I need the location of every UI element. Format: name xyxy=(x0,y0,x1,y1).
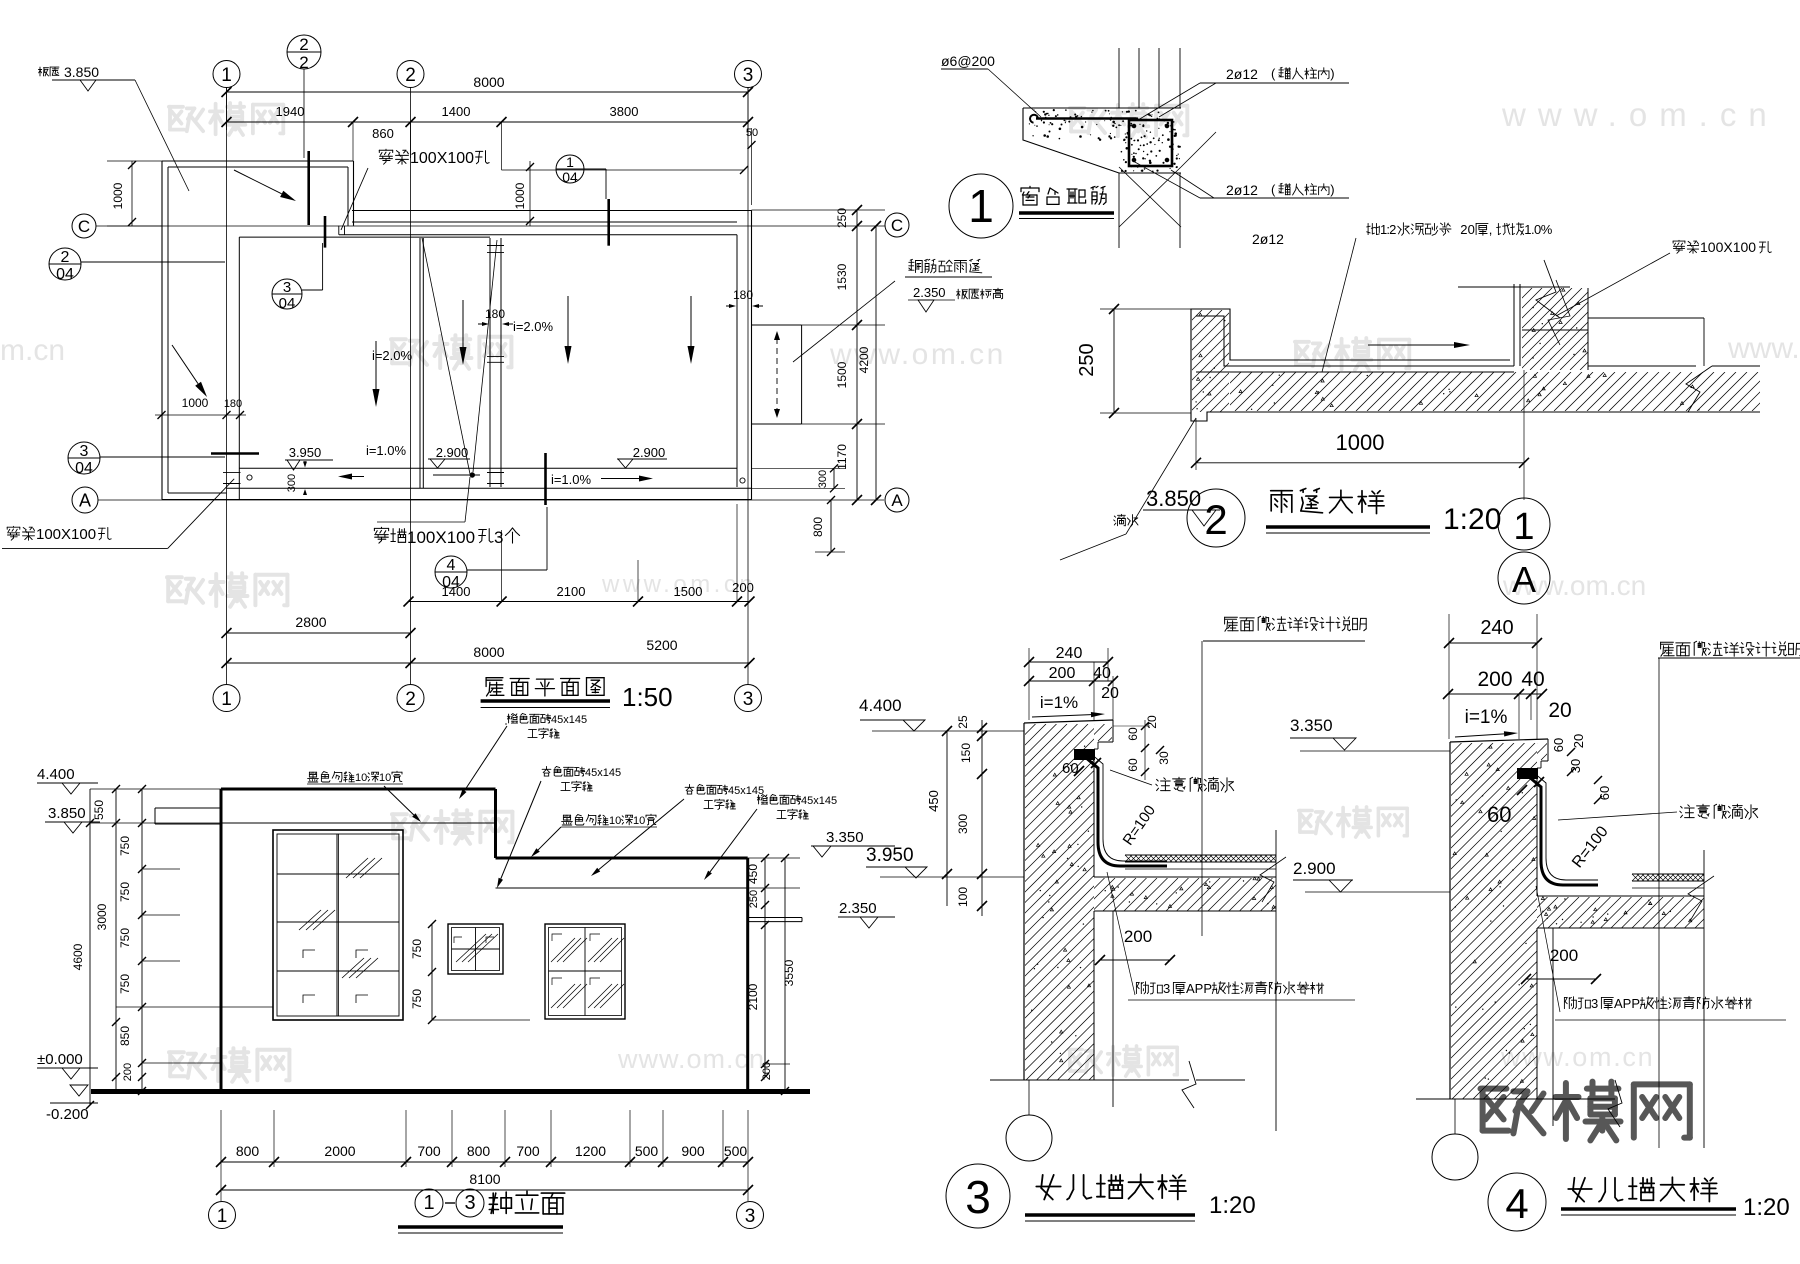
watermark outline text left mid xyxy=(167,577,203,603)
svg-text:2800: 2800 xyxy=(295,614,326,630)
watermark outline text top-left xyxy=(169,107,203,131)
axis line A xyxy=(98,499,884,501)
detail4 title xyxy=(1488,1173,1546,1231)
small window xyxy=(448,924,503,974)
svg-text:30: 30 xyxy=(1157,751,1171,765)
svg-text:3.350: 3.350 xyxy=(1290,716,1333,735)
big window xyxy=(273,830,403,1020)
svg-text:450: 450 xyxy=(746,864,760,884)
slope arrow left room 2 xyxy=(462,300,464,347)
detail3 left dim columns xyxy=(946,731,948,906)
empty bubble xyxy=(1432,1134,1478,1180)
right dim 300 xyxy=(833,468,835,488)
leader beam hole label xyxy=(1673,240,1685,253)
top dim row 1940/860/1400/3800 xyxy=(227,121,749,123)
svg-text:4600: 4600 xyxy=(71,943,85,970)
svg-text:1000: 1000 xyxy=(111,182,125,209)
bottom wall outer line xyxy=(162,499,752,501)
svg-text:750: 750 xyxy=(410,989,424,1009)
svg-text:m.cn: m.cn xyxy=(0,334,65,367)
svg-text:1530: 1530 xyxy=(835,263,849,290)
svg-text:3.950: 3.950 xyxy=(289,445,322,460)
watermark outline text bottom-left xyxy=(169,1052,205,1078)
svg-text:1: 1 xyxy=(1513,506,1534,548)
wall line below C right xyxy=(339,234,737,236)
watermark outline text detail3 xyxy=(1299,811,1331,834)
svg-text:250: 250 xyxy=(835,208,849,228)
main room top inner xyxy=(239,236,490,238)
callout apricot tile 1 xyxy=(542,767,551,777)
svg-text:ø6@200: ø6@200 xyxy=(941,53,995,69)
svg-text:550: 550 xyxy=(92,800,106,820)
axis bubble 1 bottom xyxy=(213,685,240,712)
svg-text:240: 240 xyxy=(1480,617,1513,639)
svg-text:C: C xyxy=(891,216,903,235)
elevation outline xyxy=(221,788,496,791)
svg-text:10: 10 xyxy=(355,772,367,784)
bottom dim row 2800 xyxy=(227,632,411,634)
svg-text:3.950: 3.950 xyxy=(866,845,914,866)
label chuanqiang 100X100 3 holes xyxy=(374,527,388,543)
svg-text:250: 250 xyxy=(1076,343,1098,376)
svg-text:100: 100 xyxy=(956,887,970,907)
svg-text:04: 04 xyxy=(279,295,296,312)
slope arrow porch top xyxy=(234,170,282,194)
ground line xyxy=(91,1089,810,1094)
canopy upturn outline xyxy=(1191,309,1510,414)
watermark outline text detail2 xyxy=(1295,342,1329,366)
top dim extensions 1000 right xyxy=(502,169,745,171)
detail4 roof note xyxy=(1661,642,1675,656)
svg-text:i=1.0%: i=1.0% xyxy=(366,443,407,458)
svg-text:i=2.0%: i=2.0% xyxy=(372,348,413,363)
svg-text:1: 1 xyxy=(221,689,232,710)
axis bubble 1 top xyxy=(213,61,240,88)
svg-text:800: 800 xyxy=(811,517,825,537)
svg-text:3: 3 xyxy=(80,443,89,460)
svg-text:): ) xyxy=(1330,182,1334,197)
svg-text:(: ( xyxy=(1271,182,1276,197)
svg-text:1940: 1940 xyxy=(276,104,305,119)
dim 750x2 at small window xyxy=(431,924,433,1020)
axis bubble 3 top xyxy=(735,61,762,88)
left canopy 3.850 xyxy=(155,807,221,809)
svg-text:300: 300 xyxy=(956,814,970,834)
main left wall inner xyxy=(238,237,240,499)
svg-text:www.om.cn: www.om.cn xyxy=(617,1044,765,1074)
svg-text:20: 20 xyxy=(1548,699,1571,722)
svg-text:4: 4 xyxy=(447,557,456,574)
svg-text:300: 300 xyxy=(286,474,298,492)
right dim column 250/1530/1500/1170 xyxy=(856,210,858,500)
svg-text:A: A xyxy=(79,490,91,510)
svg-text:3550: 3550 xyxy=(782,959,796,986)
beam hole at C axis xyxy=(338,226,340,235)
shaft wall with holes xyxy=(489,238,491,487)
membrane waterproofing curve xyxy=(1528,776,1598,885)
svg-text:200: 200 xyxy=(1124,927,1152,946)
label banDi 3.850 top-left xyxy=(39,67,49,76)
svg-text:www.o: www.o xyxy=(1727,332,1800,365)
svg-text:60: 60 xyxy=(1126,727,1140,741)
svg-text:10: 10 xyxy=(633,815,645,827)
stirrup square xyxy=(1129,120,1172,166)
parapet cap xyxy=(1450,739,1548,742)
detail bubble 3/04 in plan xyxy=(272,279,302,309)
svg-text:2: 2 xyxy=(61,249,70,266)
svg-text:1:20: 1:20 xyxy=(1743,1194,1790,1221)
wall hole 100x100 symbol at y 245.5 xyxy=(487,245,504,247)
svg-text:30: 30 xyxy=(1568,759,1583,773)
svg-text:200: 200 xyxy=(122,1063,134,1081)
elevation bottom axis bubbles xyxy=(209,1202,236,1229)
label chuanliang 100X100 hole bottom-left xyxy=(7,526,20,540)
label chuanliang 100X100 hole top xyxy=(379,149,392,164)
thick beam bar x545 xyxy=(544,453,547,505)
svg-text:200: 200 xyxy=(1477,668,1512,691)
slope arrow right room 1 xyxy=(567,296,569,346)
svg-text:3: 3 xyxy=(1163,981,1170,996)
svg-text:750: 750 xyxy=(410,939,424,959)
axis line 3 xyxy=(747,88,749,685)
thick beam bar on axis 2/2 xyxy=(307,151,310,225)
svg-text:1: 1 xyxy=(566,154,574,170)
bottom dim row 8000/5200 xyxy=(227,662,750,664)
svg-text:4.400: 4.400 xyxy=(37,766,75,783)
gutter arrow right xyxy=(601,478,639,480)
svg-text:8000: 8000 xyxy=(473,74,504,90)
wall below slab xyxy=(1536,928,1538,1099)
svg-text:2.900: 2.900 xyxy=(1293,859,1336,878)
svg-text:250: 250 xyxy=(748,890,760,908)
axis bubble 2/2 xyxy=(287,35,321,69)
drip note detail3 xyxy=(1156,778,1170,791)
drip note detail4 xyxy=(1680,805,1694,818)
svg-text:1: 1 xyxy=(423,1192,434,1214)
svg-text:8100: 8100 xyxy=(469,1171,500,1187)
svg-text:3.850: 3.850 xyxy=(64,64,99,80)
axis line C xyxy=(96,225,885,227)
main right wall faces xyxy=(736,235,738,487)
APP label detail3 xyxy=(1136,982,1148,994)
svg-text:100X100: 100X100 xyxy=(36,526,96,543)
svg-text:240: 240 xyxy=(1056,645,1083,662)
right dim column 4200 xyxy=(875,226,877,500)
svg-text:1500: 1500 xyxy=(835,361,849,388)
svg-text:150: 150 xyxy=(959,743,973,763)
svg-text:200: 200 xyxy=(1550,946,1578,965)
svg-text:3: 3 xyxy=(965,1171,991,1223)
break mark right xyxy=(1686,366,1712,412)
svg-text:180: 180 xyxy=(733,288,753,302)
svg-text:200: 200 xyxy=(732,580,754,595)
svg-text:2ø12: 2ø12 xyxy=(1226,66,1258,82)
svg-text:45x145: 45x145 xyxy=(551,714,587,726)
svg-text:2ø12: 2ø12 xyxy=(1252,231,1284,247)
ground break xyxy=(990,1079,1189,1081)
roof slab xyxy=(1537,895,1704,897)
svg-text:2.900: 2.900 xyxy=(633,445,666,460)
svg-text:1:20: 1:20 xyxy=(1209,1192,1256,1219)
callout orange tile 2 xyxy=(757,795,767,805)
insulation crosshatch xyxy=(1125,854,1276,856)
right dim extension lines xyxy=(752,209,886,211)
svg-text:-0.200: -0.200 xyxy=(46,1106,89,1123)
svg-text:60: 60 xyxy=(1062,760,1079,777)
svg-text:3: 3 xyxy=(743,689,754,710)
svg-text:2000: 2000 xyxy=(324,1143,355,1159)
svg-text:2ø12: 2ø12 xyxy=(1226,182,1258,198)
big dark watermark bottom right xyxy=(1481,1089,1544,1134)
axis bubble C right xyxy=(885,213,909,237)
bottom dim row 1400/2100/1500/200 xyxy=(409,601,750,603)
svg-text:45x145: 45x145 xyxy=(585,767,621,779)
svg-text:A: A xyxy=(891,491,903,510)
watermark outline text elevation xyxy=(392,814,428,840)
svg-text:100X100: 100X100 xyxy=(410,150,474,167)
porch outer walls xyxy=(162,160,354,162)
roof slab xyxy=(1094,876,1276,878)
svg-text:4: 4 xyxy=(1505,1180,1528,1227)
watermark outline text detail1 xyxy=(1070,108,1105,133)
gutter top line xyxy=(239,467,737,469)
detail3 right edge line xyxy=(1275,830,1277,1131)
division wall at axis2 xyxy=(419,238,421,488)
svg-text:1000: 1000 xyxy=(182,396,209,410)
svg-text:45x145: 45x145 xyxy=(801,795,837,807)
svg-text:180: 180 xyxy=(224,398,242,410)
svg-text:2: 2 xyxy=(299,35,308,54)
axis bubble A right xyxy=(885,488,909,512)
svg-text:4200: 4200 xyxy=(857,346,871,373)
svg-text:i=1%: i=1% xyxy=(1465,707,1508,728)
svg-text:700: 700 xyxy=(516,1143,540,1159)
svg-text:(: ( xyxy=(1271,66,1276,81)
ground break xyxy=(1416,1098,1615,1100)
svg-text:3: 3 xyxy=(464,1192,475,1214)
svg-text:750: 750 xyxy=(118,974,132,994)
svg-text:): ) xyxy=(1330,66,1334,81)
svg-text:100X100: 100X100 xyxy=(407,528,475,547)
parapet cap xyxy=(1024,720,1113,723)
svg-text:04: 04 xyxy=(75,460,93,477)
svg-text:1500: 1500 xyxy=(674,584,703,599)
svg-text:8000: 8000 xyxy=(473,644,504,660)
svg-text:60: 60 xyxy=(1487,802,1511,827)
section bubble 2/04 xyxy=(49,248,81,280)
leader mortar label xyxy=(1367,223,1380,234)
canopy box right xyxy=(752,324,802,326)
top wall right portion xyxy=(352,210,752,212)
axis bubble 2 bottom xyxy=(397,685,424,712)
svg-text:860: 860 xyxy=(372,126,394,141)
slope arrow left room 1 xyxy=(375,341,377,389)
svg-text:1200: 1200 xyxy=(575,1143,606,1159)
svg-text:40: 40 xyxy=(1521,668,1544,691)
break zigzag above wall xyxy=(1536,260,1560,318)
elevation left dims xyxy=(89,789,91,1105)
svg-text:1:2: 1:2 xyxy=(1380,222,1396,237)
svg-text:04: 04 xyxy=(562,169,578,185)
thick beam bar x325 xyxy=(324,216,327,248)
label gangjin canopy xyxy=(909,259,922,272)
axis line 2/2 xyxy=(303,69,305,158)
svg-text:5200: 5200 xyxy=(646,637,677,653)
callout black joint 1 xyxy=(308,772,319,782)
svg-text:20: 20 xyxy=(1145,715,1159,729)
canopy slab bottom with drip xyxy=(1191,412,1760,421)
svg-text:2.350: 2.350 xyxy=(913,285,946,300)
svg-text:800: 800 xyxy=(467,1143,491,1159)
gutter mid line with dot xyxy=(433,474,480,476)
axis bubble C left xyxy=(72,214,96,238)
slab outline xyxy=(1023,107,1181,109)
svg-text:10: 10 xyxy=(379,772,391,784)
main rebar with hook xyxy=(1036,117,1136,119)
svg-text:2.350: 2.350 xyxy=(839,900,877,917)
svg-text:1.0%: 1.0% xyxy=(1524,222,1552,237)
callout apricot tile 2 xyxy=(685,785,694,795)
svg-text:1000: 1000 xyxy=(513,182,527,209)
svg-text:700: 700 xyxy=(417,1143,441,1159)
porch inner walls xyxy=(168,166,348,168)
svg-text:750: 750 xyxy=(118,928,132,948)
drip label xyxy=(1114,514,1126,525)
svg-text:www.om.cn: www.om.cn xyxy=(829,338,1006,371)
svg-text:25: 25 xyxy=(956,715,970,729)
callout orange tile 1 xyxy=(507,714,517,724)
svg-text:A: A xyxy=(1512,559,1536,600)
column lines below xyxy=(1118,173,1120,248)
svg-text:450: 450 xyxy=(926,790,941,812)
svg-text:200: 200 xyxy=(761,1062,773,1080)
svg-text:3: 3 xyxy=(1591,996,1598,1011)
svg-text:www.om.cn: www.om.cn xyxy=(1500,1042,1654,1072)
beam hole left bottom xyxy=(223,471,241,473)
detail bubble 4/04 below plan xyxy=(435,556,467,588)
svg-text:2.900: 2.900 xyxy=(436,445,469,460)
axis bubble 2 top xyxy=(397,61,424,88)
svg-text:1400: 1400 xyxy=(442,584,471,599)
detail3 title xyxy=(946,1164,1010,1228)
svg-text:±0.000: ±0.000 xyxy=(37,1051,83,1068)
svg-text:800: 800 xyxy=(236,1143,260,1159)
right canopy 2.350 xyxy=(748,917,802,919)
detail4 right edge xyxy=(1703,850,1705,1148)
insulation crosshatch xyxy=(1632,873,1704,875)
wall hole 100x100 symbol at y 356.6 xyxy=(487,356,504,358)
svg-text:i=1.0%: i=1.0% xyxy=(551,472,592,487)
svg-text:50: 50 xyxy=(746,127,758,139)
svg-text:i=2.0%: i=2.0% xyxy=(513,319,554,334)
svg-text:1: 1 xyxy=(968,180,994,232)
watermark outline text bottom-center-right xyxy=(1069,1050,1101,1073)
svg-text:60: 60 xyxy=(1126,758,1140,772)
svg-text:C: C xyxy=(78,217,90,236)
svg-text:200: 200 xyxy=(1049,665,1076,682)
axis bubble A left xyxy=(72,487,98,513)
level -0.200 left xyxy=(70,1085,88,1096)
svg-text:850: 850 xyxy=(118,1026,132,1046)
detail 1 title xyxy=(949,174,1013,238)
svg-text:20: 20 xyxy=(1571,734,1586,748)
callout black joint 2 xyxy=(562,815,573,825)
wall above canopy xyxy=(1513,284,1515,366)
svg-text:1:50: 1:50 xyxy=(622,682,673,712)
detail 2 title xyxy=(1187,489,1245,547)
svg-text:3: 3 xyxy=(745,1206,756,1227)
axis line 2 xyxy=(410,88,412,685)
concrete stipple xyxy=(1029,109,1177,141)
svg-text:04: 04 xyxy=(56,266,74,283)
svg-text:4.400: 4.400 xyxy=(859,696,902,715)
svg-text:300: 300 xyxy=(817,470,829,488)
watermark outline text plan center xyxy=(391,339,427,365)
elevation title xyxy=(415,1189,443,1217)
svg-text:1: 1 xyxy=(221,65,232,86)
svg-text:1: 1 xyxy=(217,1206,228,1227)
membrane end box xyxy=(1517,768,1538,779)
thick beam bar x608 xyxy=(607,199,610,246)
svg-text:1:20: 1:20 xyxy=(1443,503,1501,536)
svg-text:60: 60 xyxy=(1551,738,1566,752)
svg-text:750: 750 xyxy=(118,836,132,856)
APP label detail4 xyxy=(1564,997,1576,1009)
slope arrow porch left xyxy=(172,345,198,384)
right dim 800 xyxy=(830,500,832,552)
svg-text:3: 3 xyxy=(283,279,291,296)
axis bubble 3 bottom xyxy=(735,685,762,712)
detail bubble 1/04 xyxy=(556,155,584,183)
svg-text:500: 500 xyxy=(635,1143,659,1159)
svg-text:20: 20 xyxy=(1460,222,1475,237)
funnel leader lines xyxy=(422,238,470,474)
parapet band lines xyxy=(221,822,496,824)
svg-text:APP: APP xyxy=(1614,996,1640,1011)
small circle right gutter xyxy=(740,478,745,483)
section bubble 3/04 left xyxy=(68,442,100,474)
svg-text:2: 2 xyxy=(405,689,416,710)
plan title xyxy=(486,678,504,696)
column lines above xyxy=(1118,48,1120,108)
svg-text:3: 3 xyxy=(494,528,503,547)
svg-text:3800: 3800 xyxy=(610,104,639,119)
svg-text:750: 750 xyxy=(118,882,132,902)
svg-text:2100: 2100 xyxy=(557,584,586,599)
svg-text:2: 2 xyxy=(1204,496,1227,543)
svg-text:20: 20 xyxy=(1101,685,1119,702)
svg-text:10: 10 xyxy=(609,815,621,827)
svg-text:500: 500 xyxy=(724,1143,748,1159)
svg-text:1000: 1000 xyxy=(1336,430,1385,455)
svg-text:2100: 2100 xyxy=(746,983,760,1010)
dim 1000 xyxy=(1196,462,1524,464)
gutter arrow left xyxy=(352,476,364,478)
gutter bottom line xyxy=(227,487,752,489)
svg-text:900: 900 xyxy=(681,1143,705,1159)
axis bubbles 1 and A xyxy=(1498,498,1550,550)
svg-text:APP: APP xyxy=(1186,981,1212,996)
svg-text:i=1%: i=1% xyxy=(1040,693,1078,712)
empty bubble xyxy=(1006,1115,1052,1161)
svg-text:180: 180 xyxy=(485,307,505,321)
svg-text:3.850: 3.850 xyxy=(1146,486,1201,511)
membrane waterproofing curve xyxy=(1085,757,1167,866)
svg-text:,: , xyxy=(1489,222,1493,237)
svg-text:3: 3 xyxy=(743,65,754,86)
membrane end box xyxy=(1074,749,1095,760)
detail3 roof note vertical line xyxy=(1201,641,1203,936)
